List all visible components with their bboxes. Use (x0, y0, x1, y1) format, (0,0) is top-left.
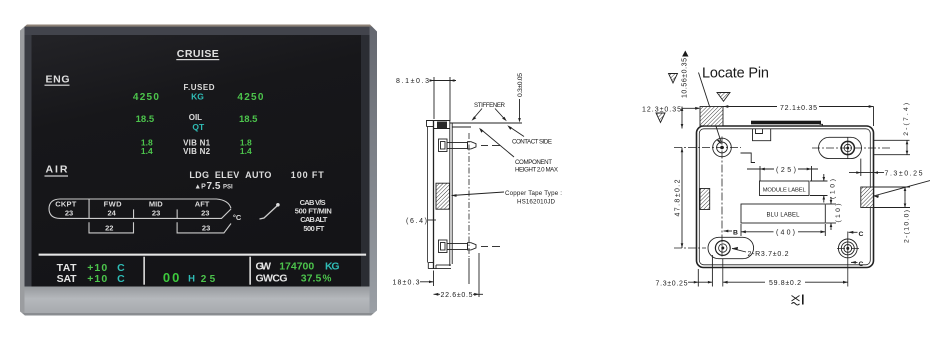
bezel right inner (361, 35, 370, 287)
svg-text:%: % (323, 274, 332, 285)
dim 47.8±0.2 (674, 148, 706, 249)
value TAT +10 (87, 262, 107, 274)
module outline outer (697, 126, 874, 268)
copper tape leader (452, 192, 505, 197)
svg-text:(6.4): (6.4) (406, 218, 427, 225)
zone temp 23 aft (201, 209, 209, 218)
pin centerline vertical (468, 133, 470, 257)
unit GW KG (325, 261, 340, 273)
label OIL (189, 113, 202, 122)
svg-text:HEIGHT 2.0 MAX: HEIGHT 2.0 MAX (515, 167, 558, 174)
value vib n1 right (240, 138, 252, 148)
SCREEN CONTENT (39, 48, 367, 285)
dim 22.6±0.5 (434, 253, 484, 299)
label Locate Pin (702, 65, 769, 81)
cabin tick fwd-mid (133, 209, 134, 218)
dim 8.1±0.3 (396, 77, 456, 121)
title CRUISE (176, 48, 219, 60)
svg-text:SAT: SAT (57, 273, 78, 285)
clock H (188, 274, 195, 285)
svg-text:CONTACT SIDE: CONTACT SIDE (512, 139, 552, 146)
datum triangle above hatch block (717, 93, 730, 102)
centerline bottom-right (837, 232, 860, 287)
value 500 FT (303, 224, 324, 233)
bottom locate pin (439, 240, 501, 253)
svg-text:12.3±0.35: 12.3±0.35 (642, 106, 681, 113)
svg-text:23: 23 (201, 209, 209, 218)
centerline left vertical (721, 137, 723, 260)
cargo temp 22 (105, 223, 113, 232)
svg-text:(10): (10) (835, 204, 842, 223)
svg-text:Copper Tape Type :: Copper Tape Type : (505, 190, 562, 197)
top flange (427, 121, 451, 129)
svg-text:7.3±0.25: 7.3±0.25 (885, 171, 923, 178)
divider 2 (249, 257, 251, 285)
label copper tape type (505, 190, 562, 206)
svg-text:37.5: 37.5 (301, 273, 322, 285)
LCD screen (32, 35, 362, 287)
datum C upper (849, 231, 864, 238)
bezel corner bevels (20, 24, 378, 316)
svg-text:B: B (733, 230, 738, 237)
zone label AFT (195, 199, 210, 208)
value fuel used right (237, 92, 263, 103)
svg-text:23: 23 (65, 209, 73, 218)
clock hours 00 (163, 270, 180, 285)
svg-text:10.56±0.35: 10.56±0.35 (682, 58, 689, 98)
bezel front face (428, 121, 434, 269)
hole bottom-right (838, 239, 857, 258)
svg-text:CKPT: CKPT (55, 199, 76, 208)
unit degC (233, 213, 242, 222)
hole top-left (713, 138, 732, 157)
top locate pin (439, 139, 501, 152)
svg-text:22: 22 (105, 223, 113, 232)
label F.USED (184, 83, 215, 92)
unit percent (323, 274, 332, 285)
bezel bottom band (25, 287, 370, 314)
svg-text:18±0.3: 18±0.3 (393, 280, 420, 287)
bezel top band (20, 27, 377, 35)
datum B (724, 230, 739, 237)
value SAT +10 (87, 273, 107, 285)
svg-text:100 FT: 100 FT (291, 170, 325, 180)
label TAT (57, 262, 78, 274)
temp needle (260, 203, 280, 219)
svg-text:47.8±0.2: 47.8±0.2 (675, 179, 682, 216)
connector steps (741, 153, 756, 163)
cargo bracket aft (177, 222, 231, 233)
svg-text:QT: QT (192, 122, 205, 132)
dim 18±0.3 (393, 258, 470, 287)
blu label box (741, 204, 825, 223)
svg-text:59.8±0.2: 59.8±0.2 (769, 280, 801, 287)
svg-text:500 FT: 500 FT (303, 224, 324, 233)
hatch block left edge (700, 189, 710, 210)
svg-text:8.1±0.3: 8.1±0.3 (396, 78, 429, 85)
svg-text:COMPONENT: COMPONENT (515, 159, 552, 166)
label ENG (45, 74, 70, 86)
dim 59.8±0.2 (723, 259, 848, 287)
top bar (751, 121, 823, 127)
zone temp 23 (65, 209, 73, 218)
symbol mark bottom (792, 295, 803, 306)
svg-text:500 FT/MIN: 500 FT/MIN (295, 207, 332, 216)
dim 2-(10.0) (874, 187, 911, 243)
stiffener plate line (450, 123, 522, 127)
datum triangle filled left (682, 51, 688, 57)
cabin divider ckpt (89, 199, 90, 218)
zone temp 24 (108, 209, 117, 218)
dim (10) blu label (826, 197, 842, 230)
unit SAT C (117, 273, 125, 285)
svg-text:+10: +10 (87, 273, 107, 285)
value 100 FT (291, 170, 325, 180)
label VIB N2 (183, 147, 211, 156)
cabin outline (49, 199, 231, 218)
svg-text:2-(10.0): 2-(10.0) (904, 210, 911, 243)
centerline top-right (812, 137, 891, 158)
svg-text:ENG: ENG (46, 74, 70, 86)
clock minutes 25 (201, 274, 216, 285)
bezel right outer (370, 27, 378, 316)
value vib n2 right (240, 146, 252, 156)
svg-text:CAB V/S: CAB V/S (300, 198, 326, 207)
svg-text:OIL: OIL (189, 113, 202, 122)
bezel left inner (25, 35, 32, 287)
unit TAT C (117, 262, 125, 274)
dim 12.3±0.35 (642, 106, 700, 113)
svg-text:KG: KG (325, 261, 340, 273)
back plane lines (450, 121, 452, 267)
dim (25) (747, 166, 818, 181)
copper tape (436, 183, 450, 209)
unit QT (192, 122, 205, 132)
svg-text:23: 23 (202, 223, 210, 232)
svg-text:°C: °C (233, 213, 242, 222)
zone label CKPT (55, 199, 76, 208)
svg-text:72.1±0.35: 72.1±0.35 (780, 105, 817, 112)
svg-text:174700: 174700 (279, 261, 314, 273)
bezel base (20, 25, 377, 316)
value 500 FT/MIN (295, 207, 332, 216)
dim 0.3±0.05 (517, 73, 524, 123)
bezel left highlight (20, 27, 25, 316)
svg-text:0.3±0.05: 0.3±0.05 (517, 73, 524, 97)
hatch block right edge (861, 187, 874, 208)
bottom flange (428, 263, 451, 269)
value oil left (136, 114, 155, 125)
svg-text:STIFFENER: STIFFENER (474, 102, 506, 109)
svg-text:(40): (40) (776, 230, 795, 237)
svg-text:VIB N2: VIB N2 (183, 147, 211, 156)
label SAT (57, 273, 78, 285)
SIDE VIEW DRAWING (393, 73, 563, 299)
centerline top-left horizontal (674, 147, 741, 149)
datum C lower (851, 261, 864, 268)
zone temp 23 mid (152, 209, 160, 218)
svg-text:C: C (117, 273, 125, 285)
value vib n1 left (141, 138, 153, 148)
svg-text:1.4: 1.4 (141, 146, 153, 156)
svg-text:GWCG: GWCG (256, 273, 288, 285)
label STIFFENER (472, 102, 507, 121)
cargo temp 23 (202, 223, 210, 232)
svg-text:MODULE LABEL: MODULE LABEL (763, 187, 807, 193)
value fuel used left (133, 92, 159, 103)
top mounting block (437, 122, 447, 129)
hole top-right (841, 141, 854, 154)
dim 72.1±0.35 (723, 105, 874, 126)
zone label FWD (104, 199, 123, 208)
svg-text:LDG ELEV AUTO: LDG ELEV AUTO (189, 170, 271, 180)
locate pin hatch block (700, 107, 723, 126)
svg-text:2-R3.7±0.2: 2-R3.7±0.2 (748, 251, 789, 258)
svg-text:1.4: 1.4 (240, 146, 252, 156)
bezel top lip (20, 25, 377, 27)
svg-text:MID: MID (149, 199, 163, 208)
label GWCG (256, 273, 288, 285)
PHOTO: LCD module front (20, 24, 378, 316)
bezel bottom edge (20, 313, 377, 316)
svg-text:GW: GW (256, 261, 272, 273)
svg-text:C: C (859, 231, 864, 238)
zone label MID (149, 199, 163, 208)
svg-text:7.5: 7.5 (207, 181, 221, 192)
cargo bracket fwd (89, 222, 134, 233)
label CAB V/S (300, 198, 326, 207)
svg-text:(25): (25) (776, 167, 796, 174)
svg-text:(10): (10) (830, 179, 837, 199)
svg-text:4250: 4250 (237, 92, 263, 103)
svg-text:2-(7.4): 2-(7.4) (903, 103, 910, 136)
dim 2-(7.4) (874, 103, 911, 155)
label VIB N1 (183, 139, 211, 148)
divider 1 (143, 257, 145, 285)
svg-text:KG: KG (191, 92, 204, 102)
label AIR (45, 164, 69, 177)
svg-text:AIR: AIR (46, 164, 68, 176)
label CONTACT SIDE (507, 125, 552, 145)
value GW 174700 (279, 261, 314, 273)
dim (6.4) (406, 218, 436, 225)
separator line (39, 254, 367, 256)
label COMPONENT HEIGHT 2.0 MAX (479, 128, 558, 174)
dim 10.56±0.35 (681, 58, 689, 129)
dim 7.3±0.25 right (849, 159, 923, 178)
svg-text:18.5: 18.5 (136, 114, 155, 125)
unit KG (191, 92, 204, 102)
svg-text:18.5: 18.5 (239, 114, 258, 125)
hole bottom-left (715, 241, 730, 256)
slot top-right (819, 137, 862, 158)
REAR VIEW DRAWING (642, 51, 930, 306)
locate pin leader (699, 73, 723, 145)
svg-text:23: 23 (152, 209, 160, 218)
svg-text:BLU LABEL: BLU LABEL (767, 213, 801, 219)
value vib n2 left (141, 146, 153, 156)
dim 7.3±0.25 bottom-left (656, 255, 713, 287)
svg-text:CRUISE: CRUISE (177, 48, 219, 60)
svg-text:Locate Pin: Locate Pin (702, 65, 769, 81)
svg-text:PSI: PSI (223, 185, 233, 191)
dim (40) (741, 224, 825, 237)
svg-text:HS162010JD: HS162010JD (517, 199, 556, 206)
svg-text:7.3±0.25: 7.3±0.25 (656, 280, 688, 287)
value GWCG 37.5 (301, 273, 322, 285)
slot bottom-left (708, 237, 754, 258)
label GW (256, 261, 272, 273)
datum triangle hatched low (656, 113, 665, 123)
svg-text:22.6±0.5: 22.6±0.5 (441, 292, 473, 299)
datum triangle hatched mid (669, 74, 678, 84)
line delta-P 7.5 PSI (194, 181, 233, 192)
svg-text:C: C (859, 261, 864, 268)
cabin tick mid-aft (177, 209, 178, 218)
dim (10) module label (810, 174, 837, 203)
label CAB ALT (300, 215, 327, 224)
svg-text:▲P: ▲P (194, 184, 206, 191)
top notch (753, 129, 771, 141)
leader to right hatch (874, 181, 930, 199)
line LDG ELEV AUTO (189, 170, 271, 180)
svg-text:H: H (188, 274, 195, 285)
module label box (760, 181, 810, 196)
module outline inner (699, 129, 870, 265)
svg-text:FWD: FWD (104, 199, 123, 208)
svg-text:24: 24 (108, 209, 117, 218)
leader 2-R3.7 (732, 247, 789, 258)
value oil right (239, 114, 258, 125)
svg-text:4250: 4250 (133, 92, 159, 103)
svg-text:AFT: AFT (195, 199, 210, 208)
